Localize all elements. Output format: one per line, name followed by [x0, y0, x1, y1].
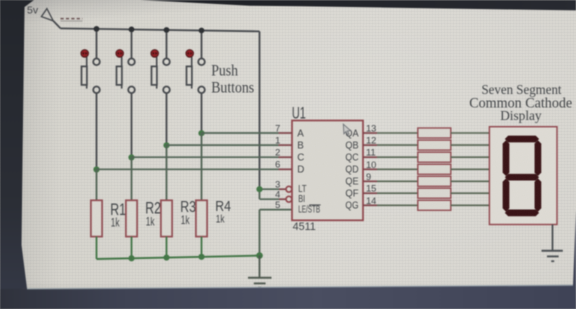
wire: QA to series resistor [377, 132, 418, 134]
label 4511 [293, 221, 316, 233]
label U1 [292, 105, 306, 123]
pin 11 output QC [345, 148, 377, 164]
junction node button 4 [198, 130, 204, 136]
wire: R4 to ground rail [201, 237, 203, 257]
segment e [503, 178, 510, 211]
wire: button 4 to node [201, 93, 203, 133]
wire: series resistor to display segment d [451, 168, 490, 170]
wire: QE to series resistor [377, 180, 418, 182]
wire: input D [97, 168, 279, 170]
resistor R4 [196, 199, 231, 237]
segment b [535, 140, 542, 176]
junction node button 3 [163, 142, 169, 148]
push button 2 [116, 32, 135, 93]
wire: series resistor to display segment c [451, 156, 490, 158]
resistor R1 [91, 200, 126, 237]
segment c [535, 178, 542, 211]
pin 2 input C [275, 148, 304, 164]
junction on ground rail R3 [163, 254, 169, 260]
wire: ground rail [97, 256, 260, 259]
push button 3 [151, 32, 170, 93]
wire: input A [202, 132, 279, 134]
resistor R2 [126, 200, 161, 237]
wire: button 1 to node [96, 93, 98, 170]
wire: display cathode to ground [552, 225, 554, 251]
wire: series resistor to display segment e [451, 180, 490, 182]
junction node button 1 [93, 166, 99, 172]
segment g [505, 174, 539, 181]
junction on ground rail R2 [128, 255, 134, 261]
pin 13 output QA [345, 124, 377, 140]
wire: LE/STB to ground [260, 210, 293, 256]
pin 4 BI with bubble [275, 190, 305, 206]
wire: R1 to ground rail [96, 237, 98, 259]
wire: series resistor to display segment b [451, 144, 490, 146]
segment f [503, 140, 510, 176]
series resistor QG [418, 200, 451, 210]
resistor R3 [161, 199, 196, 236]
ground symbol left [248, 256, 272, 288]
pin 10 output QD [345, 160, 377, 176]
junction on 5V rail, button 1 [94, 26, 100, 32]
pin 5 LE/STB [275, 200, 320, 216]
wire: button 3 to node [166, 93, 168, 145]
junction node button 2 [128, 154, 134, 160]
wire: node to resistor R2 [131, 157, 133, 200]
wire: LT [260, 188, 280, 190]
junction on 5V rail, button 2 [129, 27, 135, 33]
junction on 5V rail, button 4 [199, 28, 205, 34]
pin 7 input A [275, 123, 304, 139]
mouse cursor [343, 124, 350, 135]
wire: node to resistor R4 [201, 133, 203, 200]
series resistor QA [418, 128, 451, 138]
wire: series resistor to display segment f [451, 192, 490, 194]
wire: node to resistor R3 [166, 145, 168, 200]
wire: QC to series resistor [377, 156, 418, 158]
pin 12 output QB [345, 136, 377, 152]
wire: input C [132, 156, 279, 158]
wire: series resistor to display segment g [451, 204, 490, 206]
seven segment display body [489, 127, 557, 225]
push button 4 [186, 33, 205, 93]
junction node LT [256, 186, 262, 192]
wire: input B [167, 144, 279, 146]
wire: BI [260, 198, 280, 200]
pin 6 input D [275, 160, 304, 176]
op IC U1 4511 body [292, 121, 363, 221]
series resistor QB [418, 140, 451, 150]
ground symbol right [542, 251, 563, 262]
wire: node to resistor R1 [96, 170, 98, 201]
wire: QG to series resistor [377, 204, 418, 206]
wire: +5V top rail [61, 28, 260, 31]
segment d [505, 210, 539, 217]
junction on 5V rail, button 3 [164, 27, 170, 33]
push button 1 [81, 31, 100, 93]
segment a [505, 136, 539, 143]
pin 9 output QE [345, 172, 377, 188]
pin 3 LT with bubble [275, 180, 306, 196]
pin 1 input B [275, 136, 304, 152]
series resistor QF [418, 188, 451, 198]
wire: QD to series resistor [377, 168, 418, 170]
wire: R3 to ground rail [166, 237, 168, 258]
junction on ground rail at LE branch [256, 252, 263, 259]
series resistor QE [418, 176, 451, 186]
series resistor QD [418, 164, 451, 174]
label: Seven Segment Common Cathode Display [469, 82, 572, 123]
wire: rail down to LT/BI [259, 31, 261, 199]
wire: button 2 to node [131, 93, 133, 157]
pin 15 output QF [345, 184, 377, 200]
wire: series resistor to display segment a [451, 132, 490, 134]
junction on ground rail R4 [198, 254, 204, 260]
pin 14 output QG [345, 196, 377, 212]
wire: R2 to ground rail [131, 237, 133, 259]
series resistor QC [418, 152, 451, 162]
wire: QF to series resistor [377, 192, 418, 194]
label: Push Buttons [211, 62, 254, 96]
power terminal 5V [27, 4, 83, 28]
wire: QB to series resistor [377, 144, 418, 146]
